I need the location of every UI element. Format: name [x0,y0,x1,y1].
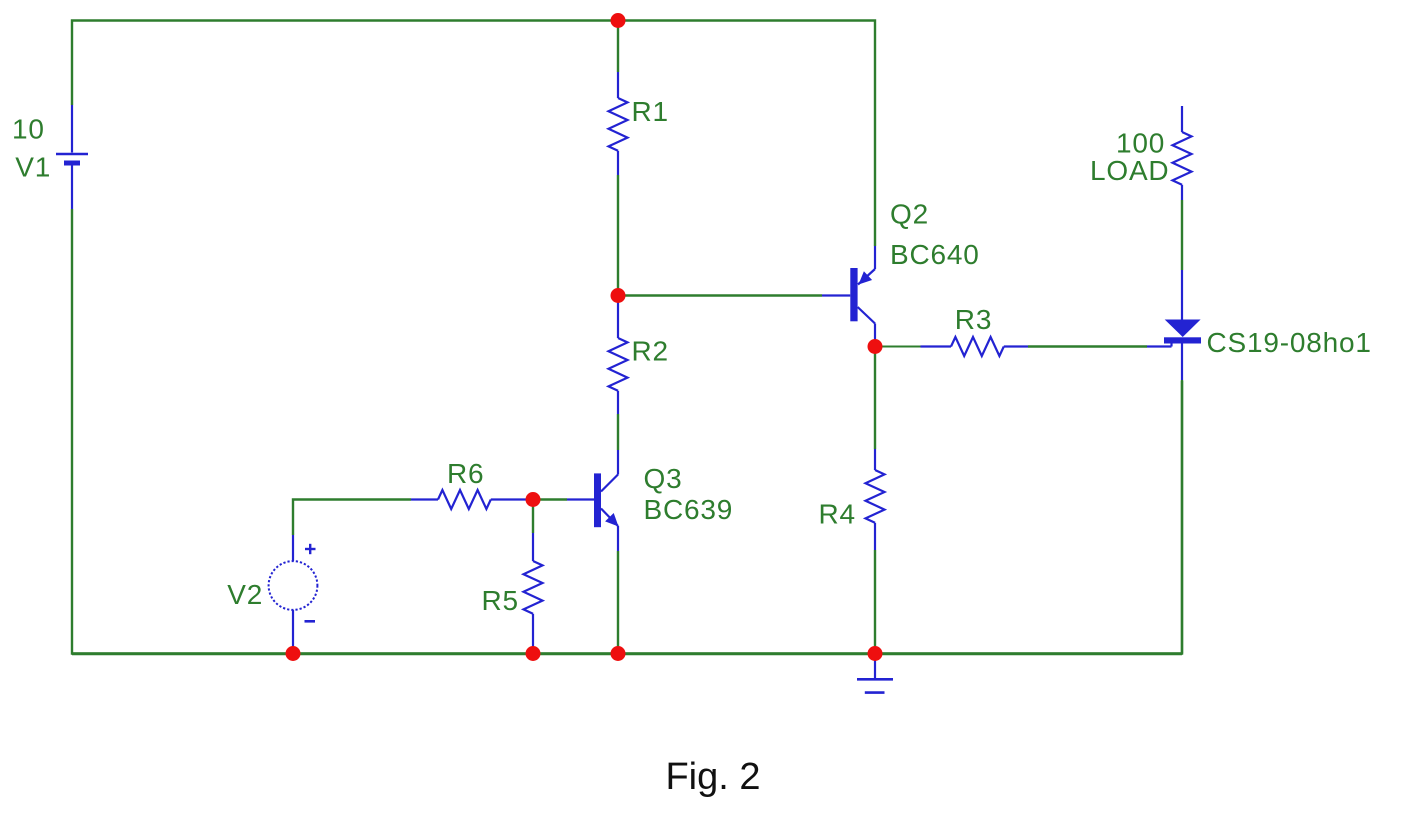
svg-text:R6: R6 [447,458,484,489]
svg-text:Q2: Q2 [890,199,929,230]
svg-text:BC640: BC640 [890,239,980,270]
svg-text:Q3: Q3 [644,463,683,494]
svg-text:R3: R3 [955,304,992,335]
svg-text:10: 10 [12,113,45,144]
svg-text:R1: R1 [632,96,669,127]
svg-text:CS19-08ho1: CS19-08ho1 [1207,327,1372,358]
svg-text:V2: V2 [227,579,263,610]
svg-text:R2: R2 [632,336,669,367]
svg-text:V1: V1 [15,152,51,183]
svg-text:R4: R4 [819,499,856,530]
svg-text:BC639: BC639 [644,494,734,525]
svg-text:Fig. 2: Fig. 2 [665,756,760,798]
svg-text:R5: R5 [482,585,519,616]
svg-text:LOAD: LOAD [1090,155,1169,186]
